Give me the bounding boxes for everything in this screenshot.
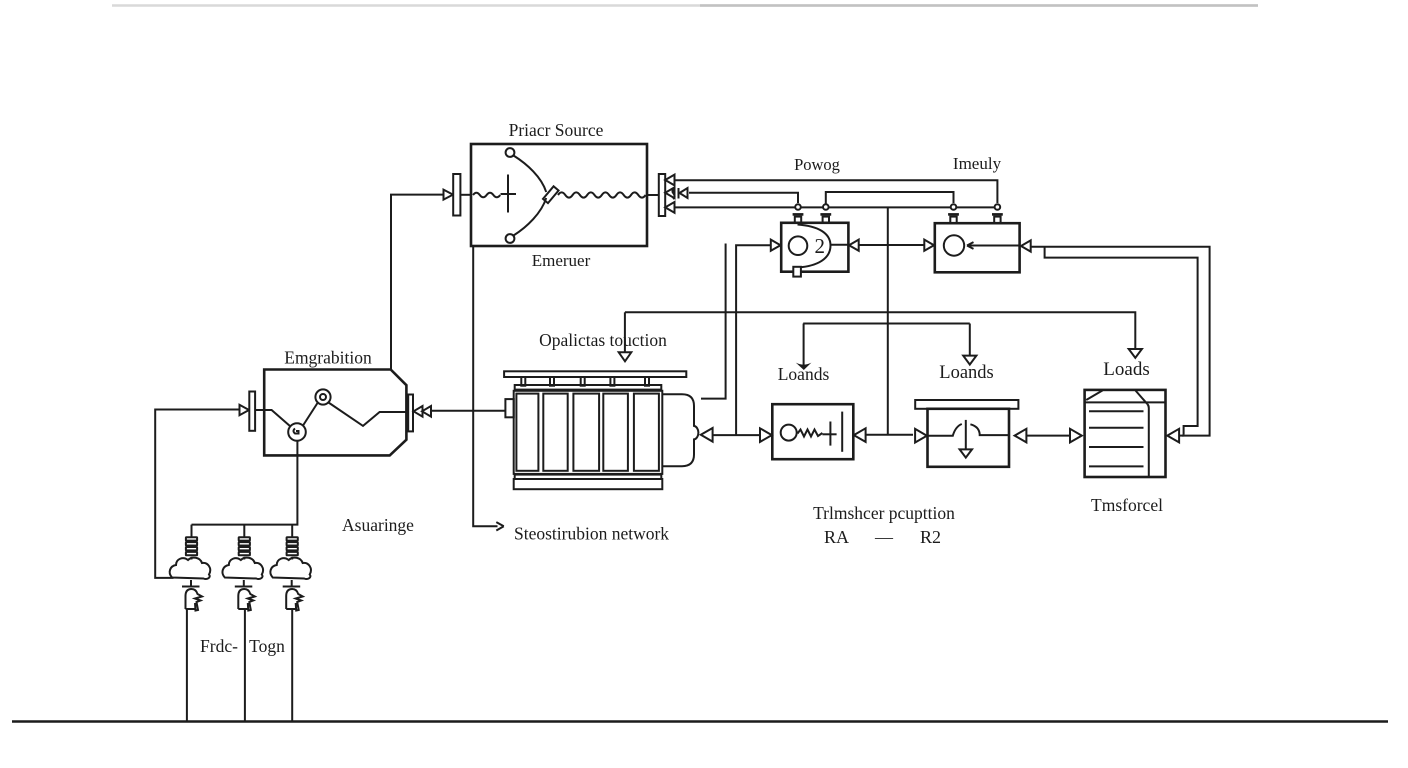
P1 inner tick	[822, 433, 836, 435]
distribution drop from U2 circle	[192, 441, 298, 525]
opalictas drop line	[624, 312, 626, 352]
busbar B2 right of generator	[659, 174, 665, 216]
breaker box K1 with circle 2	[781, 223, 848, 272]
svg-text:Loands: Loands	[939, 363, 993, 383]
P1 inner circle	[781, 425, 797, 441]
wire K1 input drop leg	[736, 245, 771, 435]
K1 inner circle	[789, 236, 808, 255]
cloud stem right	[291, 580, 293, 587]
generator internals: upper curve	[514, 156, 547, 193]
generator internals: terminal circle top	[506, 148, 515, 157]
K1 inner wire to right edge	[831, 244, 849, 246]
loads1 arrow	[796, 363, 812, 370]
tick left	[182, 586, 200, 588]
transformer fin 3	[573, 394, 599, 471]
load transformer T3 outer	[1085, 390, 1166, 477]
svg-text:Powog: Powog	[794, 155, 840, 174]
connector bushing T1a	[793, 204, 804, 223]
steostirubion arrow	[496, 522, 504, 530]
svg-text:Loads: Loads	[1103, 359, 1149, 380]
K1 output arrow	[849, 240, 859, 251]
drop stem 3	[291, 525, 293, 538]
T3 top band	[1085, 401, 1166, 403]
coil-cloud stem right	[291, 557, 293, 560]
coil right	[287, 537, 298, 540]
wire T3 arrow to loop	[1179, 435, 1184, 437]
ground wire left	[186, 609, 188, 722]
ground line	[12, 720, 1388, 723]
svg-text:Loands: Loands	[778, 364, 830, 384]
coil-cloud stem middle	[243, 557, 245, 560]
U2 internal wire and linkage	[255, 410, 290, 427]
hook right	[286, 589, 303, 611]
wire P1 to S1	[866, 434, 913, 436]
wire transformer to Q-box row	[713, 434, 761, 436]
transformer output arrow	[701, 428, 713, 442]
arrow into generator bus	[444, 190, 454, 200]
decorative top grey line	[112, 4, 1258, 7]
loads2 arrow	[963, 356, 976, 365]
T3 inner vertical	[1147, 404, 1149, 477]
svg-text:Trlmshcer pcupttion: Trlmshcer pcupttion	[813, 503, 955, 523]
loads feeder line	[625, 312, 1135, 349]
svg-text:Emeruer: Emeruer	[532, 251, 591, 270]
coil left	[186, 537, 197, 540]
generator internals: small wavy at left	[473, 193, 500, 198]
svg-text:Togn: Togn	[249, 636, 285, 656]
T3 corner diagonal left	[1086, 390, 1102, 400]
busbar B1 left of generator	[453, 174, 460, 216]
T3 input arrow	[1070, 429, 1082, 443]
busbar B2 squiggle artifact	[672, 188, 678, 200]
T3 lamination line 3	[1089, 446, 1144, 448]
wire bus to generator box	[460, 194, 471, 196]
ground wire right	[291, 609, 293, 722]
loads bracket	[803, 323, 970, 325]
cloud middle	[222, 558, 263, 579]
svg-text:Emgrabition: Emgrabition	[284, 348, 372, 368]
transformer main body	[514, 391, 663, 474]
busbar B2 arrow middle	[665, 187, 674, 198]
K2 inner circle	[944, 235, 964, 255]
U2 upper double circle	[315, 389, 330, 404]
switch box S1 body	[928, 409, 1010, 467]
cloud stem middle	[243, 580, 245, 587]
K2 inner arrow wire	[968, 245, 1020, 247]
svg-text:Opalictas touction: Opalictas touction	[539, 330, 667, 350]
loads2 drop	[969, 324, 971, 356]
busbar B2 arrow top	[665, 175, 674, 186]
transformer top plate	[504, 371, 686, 377]
transformer bottom plate	[514, 479, 663, 489]
U2 linkage to upper circle	[303, 403, 318, 426]
connector bushing T2b	[992, 204, 1003, 223]
wire feeder row2 left segment	[689, 193, 798, 203]
U2 output double arrow	[414, 406, 423, 417]
generator internals: vertical electrode with tick	[507, 175, 509, 213]
S1 inner right curve and wire	[970, 424, 1009, 435]
ground wire middle	[244, 609, 246, 722]
tick right	[283, 586, 301, 588]
P1 output arrow	[854, 428, 866, 442]
generator internals: terminal circle bottom	[506, 234, 515, 243]
wire K2 output outer loop	[1031, 247, 1210, 436]
wire feeder row3	[674, 206, 997, 208]
drop stem 2	[243, 525, 245, 538]
hook middle	[238, 589, 255, 611]
wire K2 output inner loop	[1045, 247, 1198, 435]
svg-text:Steostirubion network: Steostirubion network	[514, 524, 669, 544]
svg-text:Frdc-: Frdc-	[200, 636, 238, 656]
svg-text:Asuaringe: Asuaringe	[342, 515, 414, 535]
svg-text:2: 2	[815, 234, 826, 258]
loads1 drop	[803, 324, 805, 367]
svg-text:Imeuly: Imeuly	[953, 154, 1002, 173]
connector bushing T2a	[948, 204, 959, 223]
tick middle	[235, 586, 253, 588]
drop stem 1	[191, 525, 193, 538]
transformer fin 5	[634, 394, 659, 471]
U2 input wire from left	[155, 410, 240, 578]
svg-text:Tmsforcel: Tmsforcel	[1091, 495, 1163, 515]
wire feeder row2 bridge segment	[826, 192, 954, 205]
U2 lower circle with mark	[288, 423, 306, 441]
switch box S1 top cap	[915, 400, 1018, 409]
busbar B2 arrow middle second head	[680, 188, 688, 198]
S1 input arrow	[915, 429, 927, 443]
opalictas arrow	[619, 352, 632, 361]
K1 bottom terminal square	[793, 267, 801, 277]
breaker box K2 with circle	[935, 223, 1020, 272]
cloud stem left	[190, 580, 192, 587]
busbar B3 left of U2	[249, 392, 255, 431]
K2 input arrow	[924, 240, 934, 251]
transformer bushing stubs	[521, 377, 525, 386]
P1 inner bar 1	[829, 422, 831, 446]
coil middle	[239, 537, 250, 540]
hook left	[186, 589, 203, 611]
P1 inner bar 2	[841, 412, 843, 452]
T3 lamination line 1	[1089, 410, 1144, 412]
transformer fin 1	[516, 394, 538, 471]
generator internals: winding wavy line	[558, 192, 646, 197]
svg-text:Priacr Source: Priacr Source	[509, 120, 604, 140]
wire U2 to transformer tab	[431, 410, 505, 412]
transformer fin 4	[603, 394, 628, 471]
T3 output arrow	[1167, 429, 1179, 443]
svg-text:R2: R2	[920, 527, 941, 547]
cloud left	[170, 558, 211, 579]
connector bushing T1b	[820, 204, 831, 223]
S1 center stem	[965, 420, 967, 450]
transformer bottom bar	[515, 475, 662, 479]
coil-cloud stem left	[191, 557, 193, 560]
U2 linkage zigzag to output	[329, 403, 407, 426]
transformer fin 2	[543, 394, 567, 471]
generator box U1	[471, 144, 647, 246]
wire generator box to right busbar	[647, 194, 659, 196]
T3 lamination line 4	[1089, 465, 1144, 467]
P1 input arrow	[760, 428, 772, 442]
cloud right	[270, 558, 311, 579]
long vertical riser	[887, 207, 889, 434]
svg-text:RA: RA	[824, 527, 849, 547]
steostirubion riser from generator	[473, 246, 497, 526]
loads3 arrow	[1129, 349, 1142, 358]
regulator box U2 outline	[264, 370, 406, 456]
K1 input arrow	[771, 240, 781, 251]
wire from node into generator bus	[391, 195, 443, 370]
busbar B4 right of U2	[408, 395, 413, 432]
S1 down arrow	[960, 449, 972, 457]
U2 input arrow	[240, 405, 250, 415]
S1 inner left wire and curve	[928, 424, 962, 436]
wire between K1 and K2	[859, 244, 925, 246]
wire S1 to T3	[1026, 435, 1070, 437]
P1 inner zigzag	[798, 430, 823, 437]
K2 output arrow	[1021, 240, 1031, 251]
generator internals: slanted breaker rect	[543, 186, 559, 203]
S1 output arrow	[1015, 429, 1027, 443]
transformer right cap with bump	[662, 394, 698, 466]
generator internals: lower curve	[514, 198, 547, 236]
wire top feeder row1	[674, 180, 997, 203]
busbar B2 arrow bottom	[665, 202, 674, 213]
T3 lamination line 2	[1089, 427, 1144, 429]
T3 corner diagonal right	[1136, 391, 1148, 404]
protection box P1	[772, 404, 853, 459]
svg-text:—: —	[874, 527, 894, 547]
K1 D-arc	[798, 225, 831, 268]
transformer top bar	[515, 385, 662, 390]
wire stub leg to transformer top	[701, 244, 726, 399]
transformer left tab	[505, 399, 513, 417]
